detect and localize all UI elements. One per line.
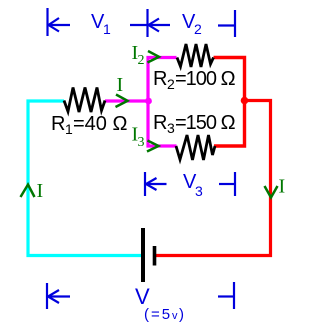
svg-text:): )	[179, 306, 184, 323]
svg-text:R: R	[153, 112, 167, 134]
svg-text:v: v	[172, 310, 178, 322]
svg-text:I: I	[117, 74, 124, 96]
svg-text:2: 2	[167, 76, 175, 92]
svg-text:2: 2	[138, 53, 145, 68]
svg-text:I: I	[37, 180, 44, 202]
svg-text:3: 3	[138, 135, 145, 150]
svg-text:=40 Ω: =40 Ω	[73, 113, 127, 135]
svg-text:3: 3	[167, 120, 175, 136]
svg-text:=100 Ω: =100 Ω	[175, 68, 236, 90]
svg-text:3: 3	[195, 183, 203, 199]
svg-text:1: 1	[65, 121, 73, 137]
svg-text:=150 Ω: =150 Ω	[175, 112, 236, 134]
svg-text:I: I	[279, 176, 286, 198]
svg-text:R: R	[51, 113, 65, 135]
svg-text:R: R	[153, 68, 167, 90]
svg-text:(=5: (=5	[144, 306, 172, 323]
svg-text:2: 2	[194, 21, 202, 37]
svg-text:1: 1	[103, 21, 111, 37]
